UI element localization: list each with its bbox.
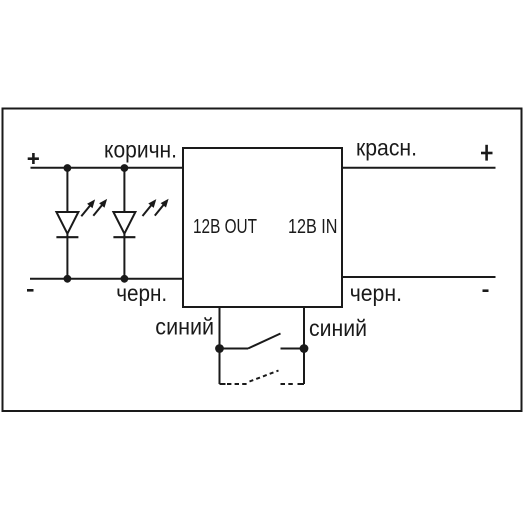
svg-text:12В IN: 12В IN xyxy=(288,216,338,238)
label minus (right negative terminal) xyxy=(483,289,489,292)
wire blue left module to switch xyxy=(219,307,221,384)
wire blue right module to switch xyxy=(303,307,305,384)
svg-text:12В OUT: 12В OUT xyxy=(193,216,257,238)
svg-text:черн.: черн. xyxy=(116,280,167,306)
label minus (left negative terminal) xyxy=(27,289,34,292)
svg-text:синий: синий xyxy=(155,314,214,340)
wire brown +12V top left xyxy=(31,167,184,169)
module box U1 xyxy=(183,148,342,307)
node junction LED1 cathode xyxy=(64,275,72,283)
svg-text:синий: синий xyxy=(309,315,367,341)
svg-text:коричн.: коричн. xyxy=(104,137,177,163)
wire black ground bottom left xyxy=(30,278,183,280)
LED D1 xyxy=(56,168,107,279)
svg-text:красн.: красн. xyxy=(356,135,417,161)
node junction LED1 anode xyxy=(64,164,72,172)
label + (right positive terminal) xyxy=(481,145,493,161)
node junction LED2 anode xyxy=(121,164,129,172)
dashed linkage (second switch position) xyxy=(220,371,305,385)
svg-text:черн.: черн. xyxy=(350,280,402,306)
wire red +12V top right xyxy=(342,167,496,169)
wire black ground bottom right xyxy=(342,276,496,278)
switch S1 (pushbutton contacts) xyxy=(215,334,308,353)
node junction LED2 cathode xyxy=(121,275,129,283)
LED D2 xyxy=(113,168,168,279)
label + (left positive terminal) xyxy=(28,153,39,164)
